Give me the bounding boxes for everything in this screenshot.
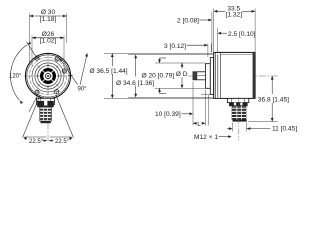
side connector hex white gap 1 <box>234 103 236 106</box>
svg-text:36.8 [1.45]: 36.8 [1.45] <box>258 96 289 103</box>
Ø36.5 extension top <box>104 52 214 54</box>
front connector thread body <box>40 107 52 121</box>
2[0.08] leader <box>200 19 209 21</box>
spigot bottom ext <box>201 93 210 95</box>
encoder body outer circle (Ø36.5) <box>25 53 70 98</box>
shaft clamping ring (black) <box>42 70 55 83</box>
mounting lug mark at 242 deg <box>36 94 38 98</box>
33.5 ext line right <box>254 9 256 53</box>
M12x1 leader <box>219 136 229 138</box>
shaft bore <box>45 73 50 78</box>
svg-text:[1.32]: [1.32] <box>226 12 243 19</box>
screw hole 3 crosshair <box>61 68 67 74</box>
33.5 dim line <box>214 10 226 12</box>
dim Ø30 line <box>29 15 66 17</box>
120deg dimension arc <box>11 45 27 100</box>
36.8 ext line bottom <box>248 121 278 123</box>
11 ext line left <box>232 123 234 132</box>
ØD dim line upper <box>181 63 183 69</box>
svg-text:L: L <box>197 121 201 128</box>
hub circle cardinal ticks <box>57 75 60 77</box>
side connector box inner lines <box>232 98 245 102</box>
Ø20 outside arrow top <box>159 58 161 63</box>
circle Ø26 <box>32 60 64 92</box>
Ø20 extension top <box>155 62 205 64</box>
22.5 right pointer arrow <box>49 140 53 142</box>
front connector hex white gap <box>44 101 47 106</box>
front view centerline horizontal <box>25 75 73 77</box>
front connector housing box <box>37 98 55 104</box>
side thread groove 4 <box>232 117 246 119</box>
dim Ø30 extension line right <box>66 14 68 44</box>
thread ridge 3 <box>40 115 51 117</box>
3[0.12] leader <box>187 44 205 46</box>
svg-text:2 [0.08]: 2 [0.08] <box>177 18 199 25</box>
hub circle tick 225 <box>38 84 40 86</box>
svg-text:Ø 34.6 [1.36]: Ø 34.6 [1.36] <box>116 80 154 87</box>
svg-text:M12 × 1: M12 × 1 <box>194 134 218 141</box>
encoder body rectangle <box>214 52 255 98</box>
svg-text:[1.02]: [1.02] <box>40 38 57 45</box>
side thread groove 3 <box>232 113 246 115</box>
screw hole 3 <box>62 69 66 73</box>
front view centerline vertical <box>47 52 49 141</box>
22.5deg dim line left <box>25 136 47 138</box>
spigot Ø30 <box>210 58 213 95</box>
side thread vertical streak 1 <box>236 106 238 119</box>
screw hole 5 <box>55 90 59 94</box>
L dim line <box>193 122 196 124</box>
90deg leader line 1 <box>62 61 78 85</box>
90deg leader line 2 <box>80 57 86 85</box>
Ø36.5 dim line <box>111 53 113 66</box>
svg-text:Ø 36.5 [1.44]: Ø 36.5 [1.44] <box>90 68 128 75</box>
side connector box <box>227 98 248 102</box>
side connector thread <box>232 106 247 119</box>
90deg leader arrow 1 <box>59 58 62 62</box>
svg-text:22.5°: 22.5° <box>55 139 70 145</box>
svg-text:Ø D: Ø D <box>176 71 188 78</box>
screw hole 1 crosshair <box>54 56 60 62</box>
svg-text:[1.18]: [1.18] <box>40 16 57 23</box>
L ext line <box>204 90 206 126</box>
22.5deg dim arrow right <box>69 137 73 140</box>
side thread vertical streak 2 <box>240 106 242 119</box>
22.5deg dim arrow left <box>23 137 27 140</box>
2[0.08] ext line <box>211 12 213 53</box>
mounting lug mark at 2 deg <box>68 74 73 76</box>
hub Ø20 <box>205 64 210 89</box>
groove line 2 <box>219 52 221 98</box>
bolt circle Ø30 (dashed) <box>30 58 67 95</box>
side connector centerline <box>238 97 240 140</box>
svg-text:Ø 20 [0.79]: Ø 20 [0.79] <box>142 72 175 79</box>
10 leader <box>182 113 190 115</box>
front connector end cap <box>41 121 51 123</box>
dim Ø26 line <box>32 37 64 39</box>
120deg arc arrow top <box>28 42 32 45</box>
Ø34.6 dim line <box>135 55 137 77</box>
screw hole 2 crosshair <box>34 55 40 61</box>
hub circle tick 315 <box>56 84 58 86</box>
screw hole 2 <box>35 56 39 60</box>
Ø20 outside arrow bottom <box>159 88 161 93</box>
svg-text:22.5°: 22.5° <box>29 139 44 145</box>
front thread vertical streak 1 <box>42 107 44 121</box>
front connector box inner lines <box>40 98 50 101</box>
11 dim arrows <box>227 128 229 130</box>
front connector hex nut dark band <box>37 101 54 107</box>
dim Ø26 extension line right <box>63 36 65 67</box>
hub circle inner <box>38 66 59 87</box>
thread ridge 1 <box>40 109 51 111</box>
flange rear line <box>214 52 216 98</box>
Ø34.6 extension bottom <box>128 96 213 98</box>
svg-text:3 [0.12]: 3 [0.12] <box>164 43 186 50</box>
22.5deg dim line right <box>50 136 72 138</box>
3[0.12] ext line 1 <box>207 44 209 58</box>
36.8 dim line <box>271 76 273 94</box>
3[0.12] ext line 2 <box>210 44 212 53</box>
shaft clamp dark block <box>193 72 197 80</box>
mounting lug mark at 122 deg <box>35 55 38 59</box>
2.5 leader <box>221 32 227 34</box>
hub circle tick 135 <box>38 66 40 68</box>
front thread vertical streak 2 <box>47 107 49 121</box>
side thread groove 2 <box>232 110 246 112</box>
shaft stub <box>193 72 205 80</box>
Ø36.5 extension bottom <box>104 97 226 99</box>
22.5deg radial line at 292.5 <box>56 95 74 137</box>
Ø20 extension bottom <box>155 87 205 89</box>
svg-text:11 [0.45]: 11 [0.45] <box>272 126 297 133</box>
flange circle (Ø34.6) <box>27 55 69 97</box>
screw hole 1 <box>55 57 59 61</box>
svg-text:2.5 [0.10]: 2.5 [0.10] <box>228 31 256 38</box>
120deg extension line at 242 deg <box>29 98 37 112</box>
22.5deg radial line at 247.5 <box>23 95 41 137</box>
side thread groove 1 <box>232 107 246 109</box>
hub circle tick 45 <box>56 66 58 68</box>
groove line 1 <box>217 55 219 98</box>
svg-text:120°: 120° <box>9 73 22 79</box>
thread ridge 2 <box>40 112 51 114</box>
clamping ring slots <box>52 70 54 72</box>
90deg leader arrow 2 <box>85 53 88 57</box>
hub circle outer <box>35 63 61 89</box>
body inner top line <box>220 54 254 56</box>
shaft bore center dot <box>47 75 49 77</box>
ØD dim line lower <box>181 77 183 88</box>
2.5 ext line <box>217 28 219 53</box>
11 ext line right <box>246 123 248 132</box>
shaft mid line <box>197 74 205 76</box>
hub face ext line <box>208 95 210 126</box>
svg-text:10 [0.39]: 10 [0.39] <box>155 111 181 118</box>
33.5 ext line left <box>213 9 215 53</box>
side connector hex white gap 2 <box>240 103 242 106</box>
10 ext line <box>192 82 194 126</box>
screw hole 5 crosshair <box>54 89 60 95</box>
screw hole 4 <box>35 90 39 94</box>
120deg arc arrow bottom <box>20 101 23 105</box>
side view centerline <box>188 75 278 77</box>
side connector end cap <box>233 120 247 122</box>
thread ridge 4 <box>40 118 51 120</box>
body right edge thick <box>253 52 256 98</box>
side connector hex band <box>229 103 248 107</box>
Ø34.6 extension top <box>128 54 213 56</box>
svg-text:90°: 90° <box>78 86 88 92</box>
22.5 left pointer arrow <box>43 140 47 142</box>
screw hole 4 crosshair <box>34 89 40 95</box>
120deg extension line at 122 deg <box>27 42 36 56</box>
dim Ø26 extension line left <box>31 36 33 67</box>
dim Ø30 extension line left <box>28 14 30 66</box>
